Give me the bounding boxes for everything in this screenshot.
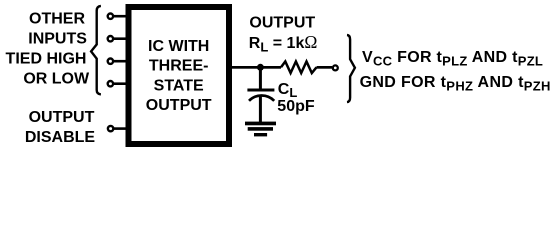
capacitor CL bottom lead (259, 96, 262, 123)
svg-text:VCC FOR tPLZ AND tPZL: VCC FOR tPLZ AND tPZL (362, 49, 543, 68)
svg-text:OUTPUT: OUTPUT (146, 97, 212, 114)
svg-text:STATE: STATE (154, 77, 204, 94)
wire: IC output to junction (232, 66, 260, 69)
label: IC with three-state output (146, 38, 212, 114)
svg-text:INPUTS: INPUTS (28, 31, 87, 48)
svg-text:OUTPUT: OUTPUT (29, 109, 95, 126)
svg-text:50pF: 50pF (277, 98, 315, 115)
brace for VCC/GND condition (347, 35, 355, 102)
capacitor CL top lead (259, 67, 262, 89)
junction node (257, 64, 264, 71)
wire: junction to resistor (260, 66, 281, 69)
capacitor CL curved plate (249, 95, 274, 100)
svg-text:OTHER: OTHER (29, 11, 85, 28)
input pin 1 (108, 14, 126, 19)
svg-text:THREE-: THREE- (149, 58, 209, 75)
output disable pin (108, 126, 126, 131)
input pin 3 (108, 59, 126, 64)
svg-text:DISABLE: DISABLE (25, 129, 96, 146)
svg-text:RL = 1kΩ: RL = 1kΩ (249, 32, 318, 55)
wire: resistor to output terminal (317, 66, 333, 69)
label: output disable (25, 109, 96, 146)
svg-text:TIED HIGH: TIED HIGH (6, 51, 87, 68)
svg-text:IC WITH: IC WITH (148, 38, 209, 55)
IC U1: three-state output IC box (129, 7, 230, 144)
output terminal (open circle) (333, 65, 338, 70)
svg-text:OUTPUT: OUTPUT (249, 14, 315, 31)
svg-text:OR LOW: OR LOW (23, 71, 90, 88)
capacitor CL top plate (247, 89, 274, 92)
input pin 4 (108, 81, 126, 86)
ground symbol (245, 122, 276, 137)
label: other inputs tied high or low (6, 11, 90, 88)
resistor RL (281, 62, 317, 74)
input pin 2 (108, 36, 126, 41)
brace grouping other inputs (91, 6, 101, 95)
svg-text:GND FOR tPHZ AND tPZH: GND FOR tPHZ AND tPZH (360, 74, 551, 93)
